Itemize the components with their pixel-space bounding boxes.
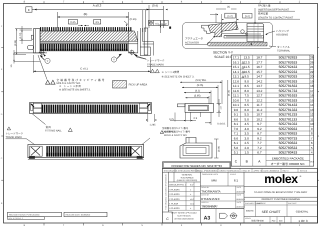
svg-text:ANGULAR TOL ±: ANGULAR TOL ±	[169, 184, 187, 187]
svg-text:RELEASE STATUS: P1 RELEASED: RELEASE STATUS: P1 RELEASED	[9, 214, 40, 217]
svg-text:(6.15): (6.15)	[228, 90, 231, 96]
svg-text:3.5: 3.5	[95, 21, 99, 24]
cavity 3d view	[180, 138, 212, 159]
svg-text:※ SEE NOTE ON SHEET 3.: ※ SEE NOTE ON SHEET 3.	[59, 89, 91, 92]
svg-text:5052782233: 5052782233	[279, 70, 298, 74]
svg-text:2019/02/12: 2019/02/12	[236, 198, 245, 201]
view3 body: front view	[28, 145, 144, 158]
pick up area legend	[113, 81, 127, 89]
svg-text:Y: Y	[113, 59, 115, 62]
svg-text:(3.95): (3.95)	[194, 95, 201, 98]
svg-text:6.6: 6.6	[234, 136, 239, 140]
view1 left vertical dim 1.72	[20, 29, 33, 31]
svg-text:12: 12	[310, 113, 314, 117]
svg-text:※ シート3参照: ※ シート3参照	[59, 84, 82, 88]
svg-text:5052781733: 5052781733	[279, 89, 298, 93]
svg-text:DRWN: TMORIKAWTA: DRWN: TMORIKAWTA	[220, 169, 240, 172]
svg-text:22: 22	[310, 70, 314, 74]
svg-text:6.7: 6.7	[257, 151, 262, 155]
svg-text:505278: 505278	[246, 210, 254, 213]
svg-text:4.0: 4.0	[245, 127, 250, 131]
svg-text:3.0°: 3.0°	[190, 184, 194, 187]
view1 GDT frame 0.2 D E	[149, 20, 169, 25]
svg-text:(0.4): (0.4)	[152, 4, 158, 8]
svg-text:ACTUATOR: ACTUATOR	[185, 42, 199, 45]
svg-text:3 PLACES: 3 PLACES	[169, 193, 180, 196]
view1 actuator hatched strip	[40, 31, 138, 41]
svg-text:7.2: 7.2	[257, 146, 262, 150]
svg-text:5052781633: 5052781633	[279, 94, 298, 98]
svg-text:5052781033: 5052781033	[279, 122, 298, 126]
svg-text:オーダー番号 ORDER NO.: オーダー番号 ORDER NO.	[271, 162, 306, 166]
svg-text:14.1: 14.1	[233, 70, 239, 74]
view1 right vertical dim	[158, 24, 166, 26]
svg-text:FPC挿入量: FPC挿入量	[258, 3, 271, 7]
view2 dim 1.265	[147, 114, 149, 122]
svg-text:TOLERANCE: TOLERANCE	[180, 176, 194, 179]
svg-text:6.1: 6.1	[234, 141, 239, 145]
svg-text:11.5: 11.5	[244, 65, 250, 69]
view2 terminal comb	[42, 102, 148, 104]
view1 boxed dim 3.5	[94, 19, 101, 24]
svg-text:24: 24	[310, 65, 314, 69]
svg-text:C ±0.1: C ±0.1	[80, 68, 88, 71]
svg-text:(2.96): (2.96)	[217, 146, 220, 152]
svg-text:(4.1): (4.1)	[195, 89, 200, 92]
tolerance block	[199, 172, 201, 223]
svg-text:4 PLACES: 4 PLACES	[169, 188, 180, 191]
view1 right end nail	[137, 31, 139, 44]
svg-text:8.6: 8.6	[234, 117, 239, 121]
svg-text:0 PLACES: 0 PLACES	[169, 207, 180, 210]
svg-text:18: 18	[310, 84, 314, 88]
drawn/checked/approved rows	[235, 186, 237, 209]
left vertical text strip	[167, 172, 169, 212]
svg-text:10.5: 10.5	[244, 70, 250, 74]
svg-text:8.7: 8.7	[257, 132, 262, 136]
svg-text:CONNECTOR SERIES NO. 505278**3: CONNECTOR SERIES NO. 505278**33	[171, 164, 222, 168]
dim 1.5 left	[14, 61, 40, 63]
svg-text:[1.2]: [1.2]	[245, 15, 250, 18]
view1 dimension A with datum flag	[26, 7, 32, 12]
note triangles right	[151, 69, 155, 73]
svg-text:FITTING NAIL: FITTING NAIL	[45, 130, 62, 133]
svg-text:12.5: 12.5	[244, 60, 250, 64]
svg-text:15: 15	[310, 98, 314, 102]
svg-text:0.4±0.1: 0.4±0.1	[217, 122, 226, 125]
view3 left nail	[30, 146, 42, 156]
section cut arrow Y left	[40, 56, 45, 61]
svg-text:THIS DRAWING CONTAINS INFORMAT: THIS DRAWING CONTAINS INFORMATION	[165, 173, 168, 210]
view2 left nail block	[32, 103, 34, 114]
svg-text:12.7: 12.7	[256, 94, 262, 98]
svg-text:7.7: 7.7	[257, 141, 262, 145]
svg-text:LENGTH TO CONTACT POINT: LENGTH TO CONTACT POINT	[258, 16, 294, 19]
view1 dimension C below	[33, 70, 150, 72]
mold cavity note right view3	[160, 131, 163, 134]
svg-text:18.7: 18.7	[256, 56, 262, 60]
svg-text:DRAWING SERIES: DRAWING SERIES	[203, 205, 219, 208]
svg-text:(1.72): (1.72)	[19, 33, 22, 39]
svg-text:11.1: 11.1	[233, 94, 239, 98]
view1 left fitting tab	[28, 45, 34, 49]
svg-text:13: 13	[310, 108, 314, 112]
svg-text:TMORIKAWTA: TMORIKAWTA	[201, 190, 220, 194]
view3 terminal comb	[47, 146, 131, 152]
svg-text:5052780633: 5052780633	[279, 141, 298, 145]
svg-text:(0.16): (0.16)	[130, 18, 137, 21]
svg-text:9.1: 9.1	[234, 113, 239, 117]
svg-text:11.6: 11.6	[233, 89, 239, 93]
svg-text:ターミナル: ターミナル	[277, 45, 290, 49]
order number table	[231, 55, 313, 166]
view1 body: top view of connector	[33, 29, 40, 53]
svg-text:10: 10	[310, 122, 314, 126]
svg-text:(UNLESS SPECIFIED): (UNLESS SPECIFIED)	[177, 179, 198, 182]
side view right dim 1.9	[217, 103, 222, 105]
svg-text:4.5: 4.5	[245, 122, 250, 126]
svg-text:1.5: 1.5	[245, 151, 250, 155]
section fpc blade	[224, 36, 264, 38]
svg-text:6.5: 6.5	[245, 103, 250, 107]
svg-text:14.2: 14.2	[256, 79, 262, 83]
view2 fitting nail leader	[33, 114, 46, 125]
svg-text:17.7: 17.7	[256, 60, 262, 64]
svg-text:17: 17	[310, 89, 314, 93]
section dims above	[215, 13, 217, 23]
svg-text:A3: A3	[204, 215, 211, 221]
section cut arrow Y right	[117, 54, 122, 59]
view2 right nail block	[147, 103, 149, 114]
svg-text:PRODUCT CUSTOMER DRAWING: PRODUCT CUSTOMER DRAWING	[262, 198, 300, 201]
revision strip row	[163, 171, 318, 173]
svg-text:HOUSING: HOUSING	[276, 34, 288, 37]
svg-text:0.5 FFC CONN ZIF B/D BTM CONT: 0.5 FFC CONN ZIF B/D BTM CONT TYPE ASSY	[254, 191, 308, 194]
svg-text:SECTION Y-Y: SECTION Y-Y	[213, 50, 234, 54]
connector series no bar	[163, 162, 231, 169]
dim 2.96	[214, 138, 219, 140]
svg-text:13.5: 13.5	[244, 56, 250, 60]
svg-text:5052781233: 5052781233	[279, 113, 298, 117]
svg-text:CHKD: ET: CHKD: ET	[242, 169, 252, 172]
svg-text:(3.38): (3.38)	[14, 40, 17, 46]
svg-text:7.5: 7.5	[245, 94, 250, 98]
svg-text:トレードマーク: トレードマーク	[6, 132, 24, 136]
svg-text:5052780433: 5052780433	[279, 151, 298, 155]
svg-text:5052780533: 5052780533	[279, 146, 298, 150]
third angle projection icon circle	[231, 213, 237, 219]
view3 right nail	[129, 146, 141, 156]
svg-text:5052780733: 5052780733	[279, 136, 298, 140]
svg-text:5052781133: 5052781133	[279, 117, 297, 121]
svg-text:11: 11	[310, 117, 313, 121]
svg-text:19: 19	[310, 79, 314, 83]
section latch details	[222, 33, 247, 35]
svg-text:CKT: CKT	[310, 160, 315, 163]
svg-text:5052782033: 5052782033	[279, 75, 298, 79]
section actuator hatched lever	[208, 22, 238, 37]
release status boxes	[8, 212, 62, 216]
svg-text:MUST REMAIN: MUST REMAIN	[177, 215, 191, 218]
view1 left crosshair mark	[40, 50, 44, 54]
svg-text:SCALE 10:1: SCALE 10:1	[214, 55, 232, 59]
svg-text:2.0: 2.0	[245, 146, 250, 150]
svg-text:10.2: 10.2	[256, 117, 262, 121]
svg-text:5052781533: 5052781533	[279, 98, 298, 102]
svg-text:5.5: 5.5	[245, 113, 250, 117]
svg-text:10.7: 10.7	[256, 113, 262, 117]
svg-text:EMBOSSED PACKAGE: EMBOSSED PACKAGE	[272, 157, 304, 161]
svg-text:6.0: 6.0	[245, 108, 250, 112]
svg-text:11.2: 11.2	[257, 108, 263, 112]
svg-text:TRADE MARK: TRADE MARK	[6, 136, 23, 139]
view2 body: bottom view	[30, 103, 152, 114]
svg-text:全端番号及びｷｬﾋﾞﾃｨ番号: 全端番号及びｷｬﾋﾞﾃｨ番号	[162, 126, 189, 130]
svg-text:14.7: 14.7	[256, 75, 262, 79]
view1 contact comb dark band	[41, 44, 127, 49]
svg-text:16: 16	[310, 94, 314, 98]
svg-text:接点位置: 接点位置	[258, 11, 269, 15]
svg-text:E: E	[28, 8, 30, 12]
svg-text:ETAKAHASHI: ETAKAHASHI	[201, 197, 219, 201]
svg-text:5.0: 5.0	[245, 117, 250, 121]
svg-text:(4): (4)	[227, 6, 230, 9]
side view dims stack	[180, 81, 222, 83]
svg-text:molex: molex	[264, 172, 298, 186]
svg-text:(5.25): (5.25)	[197, 84, 204, 87]
view1 boxed dim 0.25	[68, 19, 77, 24]
svg-text:5.1: 5.1	[234, 151, 239, 155]
dimension units / scale header	[243, 172, 245, 223]
svg-text:®: ®	[300, 175, 302, 178]
svg-text:5052781333: 5052781333	[279, 108, 298, 112]
svg-text:9.7: 9.7	[257, 122, 262, 126]
svg-text:8.5: 8.5	[245, 84, 250, 88]
svg-text:9.6: 9.6	[234, 108, 239, 112]
svg-text:15.7: 15.7	[256, 70, 262, 74]
svg-text:金具: 金具	[46, 125, 52, 129]
svg-text:2 PLACES: 2 PLACES	[169, 198, 180, 201]
svg-text:2019/02/08: 2019/02/08	[236, 190, 245, 193]
svg-text:13.2: 13.2	[256, 89, 262, 93]
svg-text:1 PLACE: 1 PLACE	[169, 203, 178, 206]
svg-text:0.25: 0.25	[70, 21, 76, 24]
svg-text:WITHIN DIMENSIONS: WITHIN DIMENSIONS	[174, 218, 194, 221]
svg-text:※ シート3参照: ※ シート3参照	[162, 70, 180, 74]
section Y-Y partial view frame	[183, 23, 273, 49]
svg-text:※ SEE NOTE ON SHEET 3.: ※ SEE NOTE ON SHEET 3.	[162, 76, 195, 79]
svg-text:MM: MM	[212, 179, 217, 183]
svg-text:17.1: 17.1	[233, 56, 239, 60]
svg-text:RELEASE DATE: 2019/02/12: RELEASE DATE: 2019/02/12	[66, 214, 91, 217]
svg-text:PICK UP AREA: PICK UP AREA	[129, 83, 148, 86]
svg-text:16.1: 16.1	[233, 60, 239, 64]
svg-text:9.5: 9.5	[245, 75, 250, 79]
svg-text:7.1: 7.1	[234, 132, 239, 136]
svg-text:14: 14	[310, 103, 314, 107]
view1 dimension (B)	[58, 16, 129, 18]
svg-text:8.2: 8.2	[257, 136, 262, 140]
svg-text:TERMINAL: TERMINAL	[277, 50, 291, 53]
svg-text:MOLD & CAVITY NO.: MOLD & CAVITY NO.	[164, 134, 187, 137]
svg-text:0.9: 0.9	[194, 117, 198, 120]
trade mark label right of view1	[136, 56, 146, 59]
svg-text:CAVITY NO.: CAVITY NO.	[162, 130, 176, 133]
svg-text:12.6: 12.6	[233, 79, 239, 83]
svg-text:DRAFT WHERE APPLICABLE: DRAFT WHERE APPLICABLE	[171, 212, 198, 215]
sheet size A3 and projection symbols	[200, 208, 244, 210]
svg-text:SEE CHART: SEE CHART	[262, 210, 281, 214]
section terminal bar	[207, 42, 267, 46]
svg-text:2019/02/12: 2019/02/12	[236, 205, 245, 208]
svg-text:7.0: 7.0	[245, 98, 250, 102]
svg-text:5052780833: 5052780833	[279, 132, 298, 136]
side view dim (6.15)	[227, 80, 229, 127]
table header row	[231, 154, 313, 156]
svg-text:9.2: 9.2	[257, 127, 262, 131]
svg-text:5052780933: 5052780933	[279, 127, 298, 131]
third angle projection icon trapezoid	[220, 213, 228, 218]
svg-text:10.1: 10.1	[233, 103, 239, 107]
svg-text:3.0: 3.0	[245, 136, 250, 140]
svg-text:8.1: 8.1	[234, 122, 239, 126]
svg-text:13.7: 13.7	[256, 84, 262, 88]
view1 top comb teeth	[41, 27, 131, 31]
svg-text:20: 20	[310, 75, 314, 79]
trade mark label left view3	[7, 127, 10, 130]
svg-text:1 OF 3: 1 OF 3	[298, 219, 308, 223]
svg-text:DIMENSION UNITS: DIMENSION UNITS	[202, 173, 219, 176]
svg-text:REV: C STATUS: F: REV: C STATUS: F	[9, 217, 23, 220]
section housing layers	[247, 24, 264, 42]
svg-text:15.1: 15.1	[233, 65, 239, 69]
view1 left bump	[31, 35, 33, 39]
svg-text:3.5: 3.5	[245, 132, 250, 136]
view1 left vertical dim 3.38	[15, 28, 32, 30]
side view body	[185, 104, 214, 113]
title block outline	[163, 168, 318, 223]
svg-text:APPR: TN: APPR: TN	[254, 169, 263, 172]
svg-text:GENERAL: GENERAL	[182, 174, 193, 177]
svg-text:6:1: 6:1	[234, 179, 239, 183]
svg-text:5052782833: 5052782833	[279, 56, 298, 60]
svg-text:アクチュエータ: アクチュエータ	[185, 37, 203, 41]
svg-text:SHT 1/3: SHT 1/3	[300, 169, 307, 172]
svg-text:SCALE: SCALE	[230, 173, 237, 176]
svg-text:INSERTION DEPTH POINT: INSERTION DEPTH POINT	[258, 8, 290, 11]
svg-text:10.6: 10.6	[233, 98, 239, 102]
mold cavity note with triangles	[46, 80, 50, 84]
svg-text:5052782633: 5052782633	[279, 60, 298, 64]
svg-text:トレードマーク: トレードマーク	[147, 58, 165, 62]
svg-text:5052782433: 5052782433	[279, 65, 298, 69]
svg-text:DOC TYPE: DOC TYPE	[257, 202, 266, 205]
svg-text:13.1: 13.1	[233, 75, 239, 79]
svg-text:(B): (B)	[84, 12, 88, 16]
svg-text:GENERAL: GENERAL	[296, 211, 309, 214]
svg-text:5.6: 5.6	[234, 146, 239, 150]
svg-text:ハウジング: ハウジング	[276, 29, 289, 33]
view1 mid band	[40, 41, 128, 44]
svg-text:2.5: 2.5	[245, 141, 250, 145]
svg-text:(5.5) TAIL: (5.5) TAIL	[196, 79, 207, 82]
svg-text:5052781433: 5052781433	[279, 103, 298, 107]
svg-text:EC No: JP2019-0208-01: EC No: JP2019-0208-01	[197, 169, 218, 172]
svg-text:5052781833: 5052781833	[279, 84, 298, 88]
svg-text:11.7: 11.7	[257, 103, 263, 107]
svg-text:5052781933: 5052781933	[279, 79, 298, 83]
svg-text:1.265: 1.265	[150, 124, 157, 127]
svg-text:Y: Y	[47, 60, 49, 63]
svg-text:[1.2]: [1.2]	[228, 15, 233, 18]
svg-text:505278-000: 505278-000	[251, 220, 264, 223]
svg-text:A ±0.3: A ±0.3	[93, 4, 102, 8]
view1 trade mark target	[130, 50, 134, 54]
svg-text:8.0: 8.0	[245, 89, 250, 93]
actuator cam steps	[202, 25, 211, 33]
svg-text:DOC PART: DOC PART	[288, 202, 297, 205]
svg-text:16.7: 16.7	[256, 65, 262, 69]
svg-text:12.2: 12.2	[256, 98, 262, 102]
svg-text:12.1: 12.1	[233, 84, 239, 88]
svg-text:26: 26	[310, 60, 314, 64]
svg-text:7.6: 7.6	[234, 127, 239, 131]
svg-text:28: 28	[310, 56, 314, 60]
svg-text:9.0: 9.0	[245, 79, 250, 83]
